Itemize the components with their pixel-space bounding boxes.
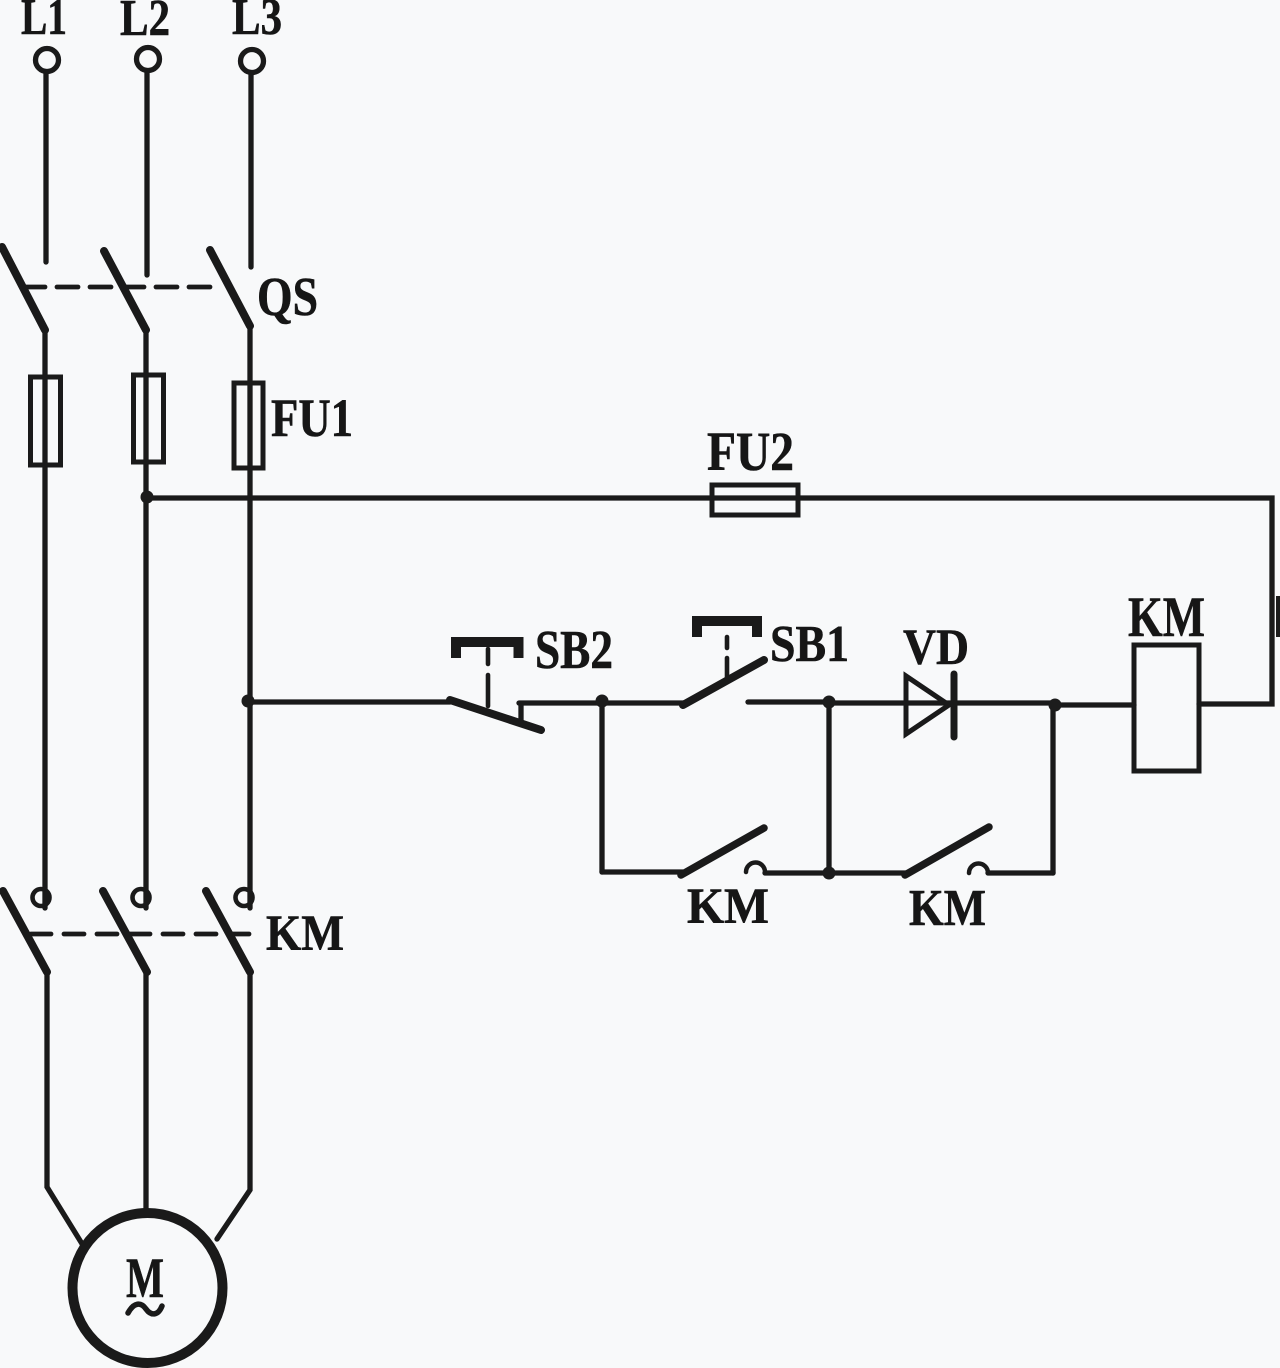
svg-text:KM: KM bbox=[909, 880, 986, 937]
svg-text:QS: QS bbox=[257, 266, 318, 327]
svg-text:M: M bbox=[126, 1247, 164, 1310]
svg-text:L3: L3 bbox=[232, 0, 282, 46]
svg-text:FU2: FU2 bbox=[707, 421, 794, 482]
svg-text:KM: KM bbox=[266, 906, 344, 962]
svg-text:SB2: SB2 bbox=[535, 619, 613, 680]
svg-text:KM: KM bbox=[1128, 586, 1205, 649]
svg-text:L1: L1 bbox=[21, 0, 67, 46]
svg-text:L2: L2 bbox=[120, 0, 170, 47]
svg-text:KM: KM bbox=[687, 879, 769, 935]
svg-text:SB1: SB1 bbox=[770, 616, 849, 673]
svg-text:VD: VD bbox=[903, 620, 969, 676]
svg-text:FU1: FU1 bbox=[271, 388, 353, 448]
